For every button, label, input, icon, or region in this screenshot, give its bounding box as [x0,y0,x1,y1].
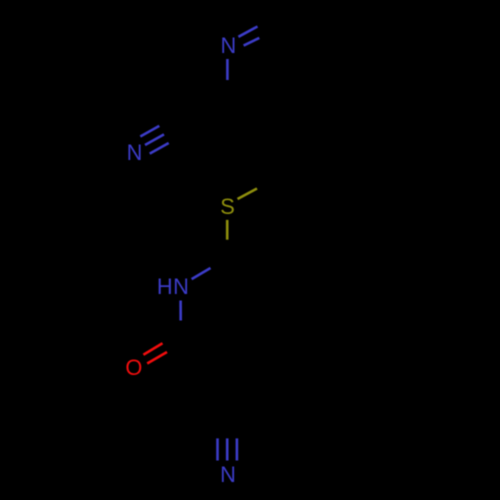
svg-text:N: N [220,462,236,487]
svg-text:N: N [173,274,189,299]
svg-text:N: N [127,140,143,165]
svg-text:N: N [221,33,237,58]
svg-text:H: H [157,274,173,299]
svg-text:S: S [220,194,235,219]
svg-text:O: O [125,355,142,380]
